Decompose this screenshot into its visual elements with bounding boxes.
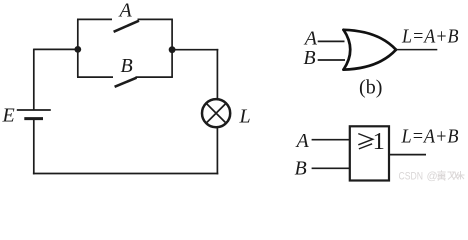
switch A blade: [114, 21, 139, 32]
svg-text:L=A+B: L=A+B: [401, 126, 459, 148]
switch A: left wire: [77, 18, 112, 20]
OR gate (b): input wire B: [318, 59, 345, 61]
svg-text:L: L: [239, 106, 251, 128]
junction dot right: [169, 46, 176, 53]
svg-text:A: A: [295, 130, 310, 152]
wire: bottom horizontal: [33, 173, 218, 175]
switch B: left wire: [77, 76, 113, 78]
wire: parallel box right vertical: [171, 19, 173, 77]
wire: left vertical lower (battery to bottom): [33, 119, 35, 175]
wire: right vertical lower (bottom to lamp): [216, 127, 218, 174]
svg-text:A: A: [118, 0, 133, 22]
lamp L: cross: [207, 104, 225, 122]
IEC gate: input wire A: [312, 139, 350, 141]
wire: right lead from right junction to lamp branch: [172, 49, 218, 51]
IEC OR gate U2: rectangle: [350, 126, 389, 180]
battery E: short thick plate: [24, 117, 43, 120]
wire: parallel box left vertical: [77, 19, 79, 77]
IEC gate: output wire: [389, 154, 426, 156]
OR gate (b): output wire: [396, 49, 438, 51]
svg-text:B: B: [121, 55, 133, 77]
battery E: long plate: [17, 109, 51, 111]
svg-text:1: 1: [373, 128, 385, 155]
switch A: right wire: [138, 18, 173, 20]
svg-text:E: E: [2, 105, 15, 127]
wire: left lead from battery branch to left junction: [34, 48, 78, 50]
switch B blade: [115, 78, 137, 87]
IEC gate: input wire B: [312, 167, 350, 169]
watermark CJK approximation: [437, 170, 464, 180]
switch B: right wire: [136, 76, 173, 78]
wire: left vertical upper (to battery): [33, 49, 35, 110]
svg-text:B: B: [295, 158, 307, 180]
OR gate (b): input wire A: [318, 40, 345, 42]
svg-text:@: @: [427, 170, 438, 182]
junction dot left: [74, 46, 81, 53]
svg-text:(b): (b): [359, 77, 382, 99]
wire: right vertical upper (lamp to right junction): [216, 49, 218, 100]
lamp L: circle: [202, 99, 230, 127]
svg-text:CSDN: CSDN: [399, 170, 424, 182]
op gate U1: OR shape: [344, 30, 397, 70]
svg-text:L=A+B: L=A+B: [401, 26, 458, 48]
svg-text:B: B: [303, 47, 315, 69]
IEC gate: >=1 symbol: [358, 134, 373, 149]
